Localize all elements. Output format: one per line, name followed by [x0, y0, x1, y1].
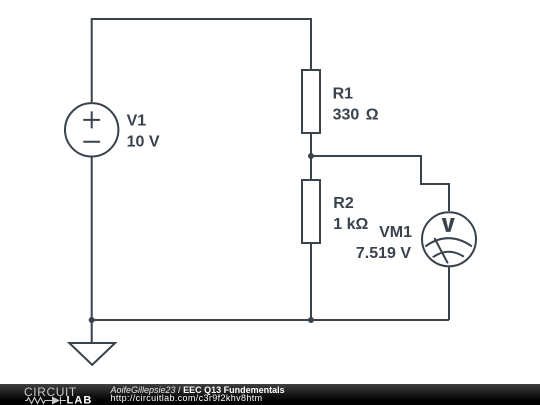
wire node A to voltmeter top	[311, 156, 449, 211]
bottom rail junction dot (mid)	[308, 317, 314, 323]
CircuitLab logo	[0, 384, 100, 405]
wire V1 bottom to ground node	[91, 157, 93, 343]
svg-text:330 Ω: 330 Ω	[333, 106, 379, 123]
ground	[69, 343, 115, 365]
svg-text:1 kΩ: 1 kΩ	[333, 216, 368, 233]
footer caption	[111, 386, 285, 404]
svg-text:LAB: LAB	[67, 395, 93, 405]
voltmeter VM1	[422, 212, 476, 266]
svg-text:V1: V1	[127, 112, 147, 129]
svg-text:10 V: 10 V	[127, 134, 160, 151]
voltmeter V glyph	[442, 218, 455, 232]
wire voltmeter bottom	[448, 267, 450, 320]
footer bar	[0, 384, 540, 405]
wire R2 bottom to bottom rail	[310, 244, 312, 320]
svg-text:7.519 V: 7.519 V	[356, 245, 411, 262]
svg-text:VM1: VM1	[379, 224, 412, 241]
node A junction dot	[308, 153, 314, 159]
wire bottom rail	[92, 319, 449, 321]
resistor R2	[302, 180, 320, 243]
svg-text:R2: R2	[333, 195, 354, 212]
svg-text:R1: R1	[333, 86, 354, 103]
voltage source V1	[65, 103, 118, 156]
wire R1 bottom to R2 top	[310, 134, 312, 179]
resistor R1	[302, 70, 320, 133]
wire top loop	[92, 19, 311, 102]
bottom rail junction dot (left)	[89, 317, 95, 323]
